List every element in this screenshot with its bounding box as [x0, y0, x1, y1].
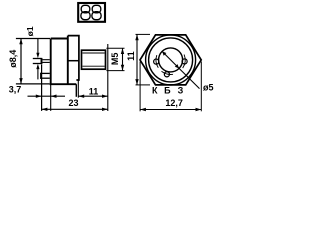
flange face extension	[77, 81, 79, 98]
dim 12.7 line	[140, 109, 201, 111]
dia1 dim lower	[37, 66, 39, 79]
svg-text:11: 11	[126, 51, 136, 61]
svg-text:11: 11	[89, 86, 99, 96]
pin inner lines	[42, 59, 49, 61]
svg-text:Б: Б	[164, 85, 171, 95]
dim row left tail + arrow to x41.6	[28, 95, 66, 97]
dim 23 line	[42, 108, 108, 110]
M5 ext lines	[106, 47, 124, 49]
dia5 leader	[179, 68, 199, 88]
thread lines	[83, 52, 105, 54]
svg-text:ø8,4: ø8,4	[8, 50, 18, 68]
dim row right arrow at can face	[51, 95, 57, 98]
M5 dim line	[122, 48, 124, 70]
ext line pin cap	[41, 64, 43, 111]
can body outline	[50, 36, 77, 85]
dia8.4 bottom arrow	[19, 78, 22, 84]
svg-text:ø1: ø1	[25, 26, 35, 36]
lower pin top line	[40, 72, 50, 74]
dim 12.7 ext left	[139, 62, 141, 112]
lower pin cap	[40, 73, 42, 79]
dia8.4 top arrow	[19, 39, 22, 45]
flange bottom step vertical	[75, 84, 77, 97]
dia8.4 dim line	[20, 39, 22, 84]
dim 11 right view ext bottom	[136, 84, 151, 86]
dim 11 line	[78, 95, 107, 97]
inscribed circle	[146, 35, 196, 85]
pin B	[164, 72, 169, 77]
svg-text:ø5: ø5	[203, 83, 214, 93]
pin Z	[182, 59, 187, 64]
svg-text:З: З	[178, 85, 184, 95]
svg-text:3,7: 3,7	[9, 85, 22, 95]
logo text 88	[81, 5, 101, 19]
dia5 circle	[159, 48, 183, 72]
pin K	[154, 59, 159, 64]
ext line stud end	[107, 44, 109, 111]
can left face extension down	[50, 84, 52, 111]
stud M5	[82, 50, 106, 69]
svg-text:К: К	[152, 85, 158, 95]
svg-text:М5: М5	[110, 53, 120, 66]
dia8.4 top extension / dia1 shelf	[16, 38, 50, 40]
pin bushing cap	[41, 58, 43, 64]
svg-text:23: 23	[68, 98, 78, 108]
can circle	[149, 38, 193, 82]
logo frame	[78, 3, 105, 22]
pin bushing top line	[33, 58, 42, 60]
pin bushing bottom line	[33, 63, 42, 65]
hexagon	[140, 35, 201, 85]
flange facet mid line	[68, 60, 79, 62]
dim 11 right view line	[136, 34, 138, 85]
dia1 dim upper	[37, 39, 39, 54]
svg-text:12,7: 12,7	[165, 98, 183, 108]
hex flange side view	[68, 36, 79, 80]
pin pitch arcs	[156, 55, 158, 68]
lower pin bottom line	[40, 77, 50, 79]
dim 12.7 ext right	[200, 62, 202, 112]
dia8.4 bottom extension / can bottom left	[16, 83, 50, 85]
dim 11 right view ext top	[136, 33, 151, 35]
dia5 dim diagonal	[162, 51, 179, 68]
